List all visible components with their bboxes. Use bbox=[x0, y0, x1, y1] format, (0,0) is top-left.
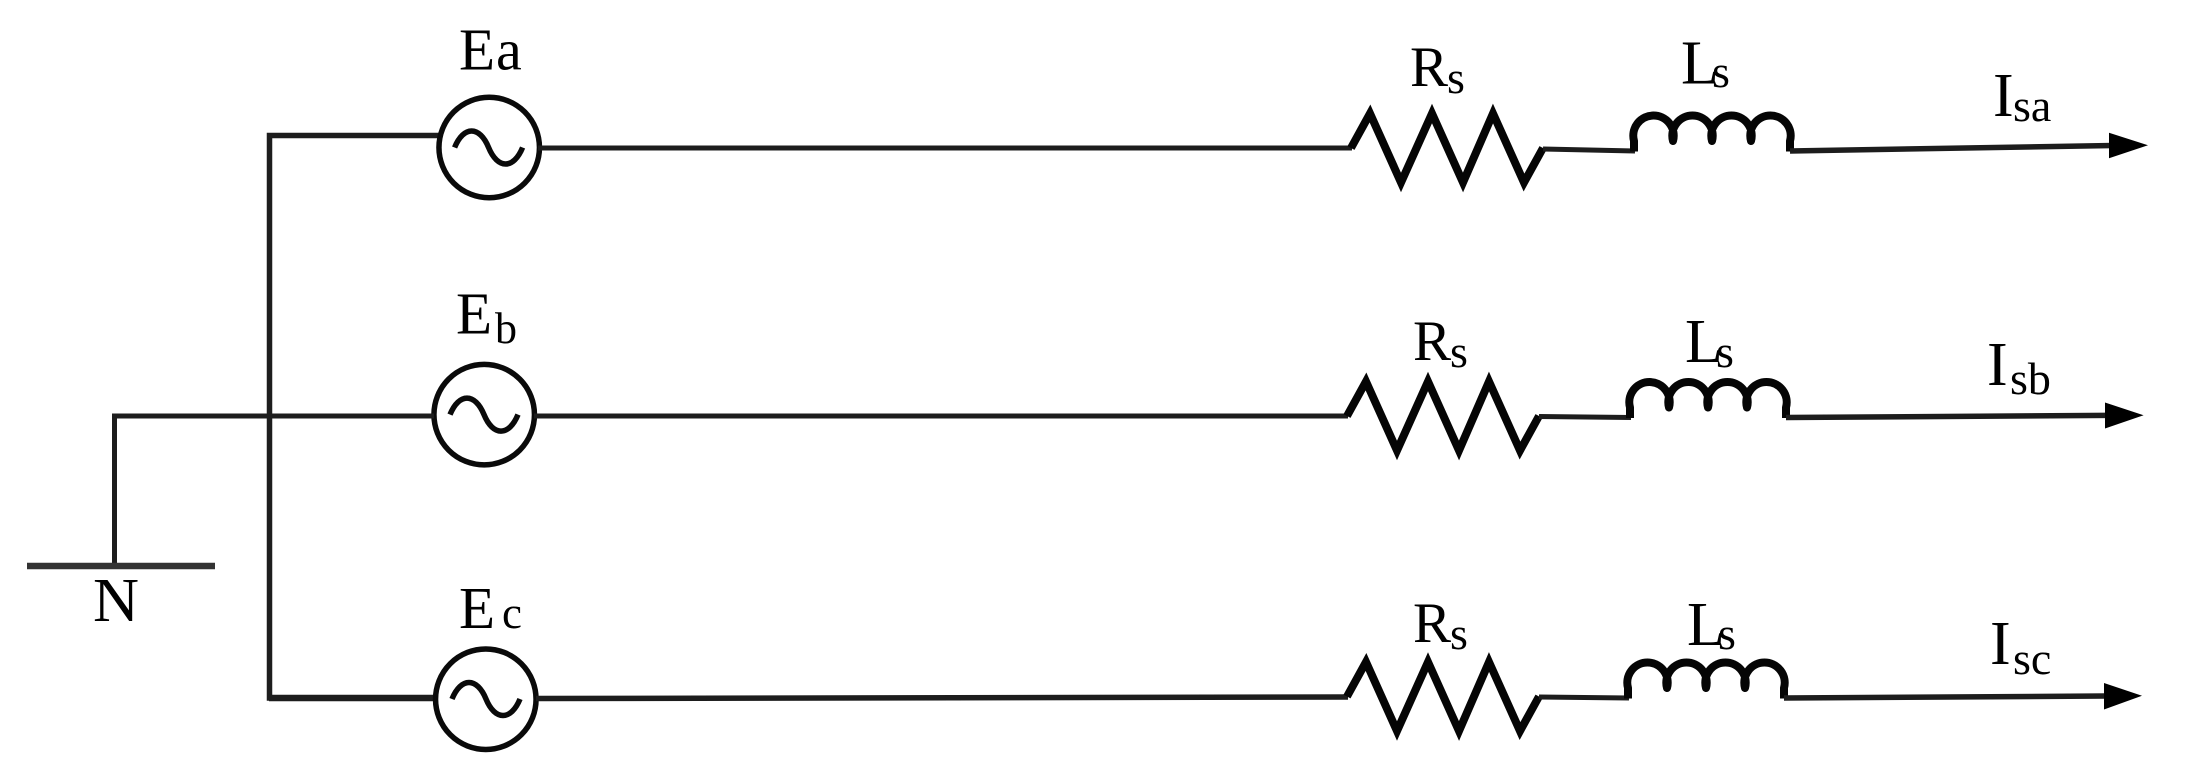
wire: neutral tap from bus to left bbox=[112, 414, 270, 419]
wire: phase c bottom-left segment (bus to Ec) bbox=[269, 695, 434, 702]
arrowhead Isc bbox=[2104, 683, 2142, 710]
resistor Rs (phase a) bbox=[1351, 114, 1543, 183]
svg-text:I: I bbox=[1990, 610, 2011, 678]
svg-text:s: s bbox=[1450, 608, 1468, 659]
inductor Ls (phase a) bbox=[1633, 116, 1790, 152]
resistor Rs (phase c) bbox=[1347, 662, 1539, 731]
svg-text:sb: sb bbox=[2010, 353, 2051, 404]
svg-text:R: R bbox=[1413, 592, 1451, 655]
svg-text:c: c bbox=[502, 588, 522, 638]
svg-text:E: E bbox=[459, 575, 495, 641]
wire: bus to Eb bbox=[270, 414, 434, 419]
arrowhead Isb bbox=[2105, 403, 2144, 429]
AC source Ea bbox=[439, 97, 540, 198]
svg-text:s: s bbox=[1718, 608, 1736, 659]
inductor Ls (phase b) bbox=[1629, 382, 1786, 418]
wire: left bus from phase a corner down to phase c bbox=[270, 136, 440, 699]
wire: Ea to Rs bbox=[538, 146, 1352, 151]
svg-text:s: s bbox=[1716, 326, 1734, 377]
svg-text:I: I bbox=[1987, 331, 2008, 399]
ground bar N bbox=[27, 563, 215, 570]
svg-text:sc: sc bbox=[2013, 633, 2051, 684]
svg-text:s: s bbox=[1450, 326, 1468, 377]
AC source Eb bbox=[434, 364, 535, 465]
svg-text:s: s bbox=[1712, 46, 1730, 97]
resistor Rs (phase b) bbox=[1347, 382, 1539, 451]
svg-text:E: E bbox=[456, 281, 492, 347]
wire: Rs to Ls (phase a) bbox=[1543, 149, 1635, 151]
svg-text:E: E bbox=[459, 17, 495, 83]
wire: Ls to output arrow (phase c) bbox=[1784, 696, 2106, 698]
svg-text:N: N bbox=[93, 567, 139, 635]
svg-text:a: a bbox=[496, 18, 522, 83]
wire: neutral vertical drop bbox=[112, 414, 117, 564]
wire: Ls to output arrow (phase a) bbox=[1790, 146, 2113, 152]
wire: Ec to Rs (phase c) bbox=[536, 697, 1348, 699]
wire: Eb to Rs (phase b) bbox=[534, 414, 1348, 419]
svg-text:sa: sa bbox=[2013, 80, 2051, 131]
svg-text:I: I bbox=[1993, 62, 2014, 130]
wire: Ls to output arrow (phase b) bbox=[1786, 415, 2108, 417]
svg-text:s: s bbox=[1447, 52, 1465, 103]
svg-text:R: R bbox=[1410, 36, 1448, 99]
inductor Ls (phase c) bbox=[1627, 663, 1784, 699]
wire: Rs to Ls (phase c) bbox=[1539, 697, 1629, 698]
wire: Rs to Ls (phase b) bbox=[1539, 417, 1631, 418]
AC source Ec bbox=[436, 649, 537, 750]
svg-text:b: b bbox=[495, 304, 517, 353]
arrowhead Isa bbox=[2109, 133, 2148, 158]
svg-text:R: R bbox=[1413, 310, 1451, 373]
